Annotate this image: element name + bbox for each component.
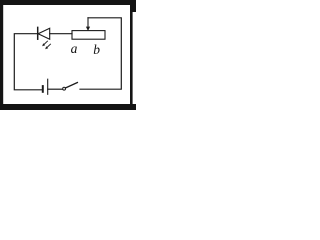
rheostat wiper arrow stem bbox=[87, 18, 89, 27]
wire: top to right side down to switch bbox=[80, 18, 121, 89]
svg-text:a: a bbox=[71, 41, 78, 56]
rheostat R: resistance box bbox=[72, 31, 105, 40]
switch S: lever blade bbox=[65, 83, 77, 89]
wire: left side + bottom-left bbox=[14, 34, 42, 90]
switch S: pivot contact circle bbox=[63, 87, 66, 90]
rheostat wiper arrowhead bbox=[86, 27, 90, 31]
diode D: cathode bar bbox=[37, 27, 39, 39]
wire: battery to switch bbox=[48, 88, 63, 90]
svg-text:b: b bbox=[93, 42, 100, 57]
LED arrow 1 bbox=[42, 41, 48, 46]
frame (decorative) bbox=[0, 0, 136, 110]
battery: negative short thick plate bbox=[42, 86, 44, 92]
diode D: triangle bbox=[38, 28, 50, 39]
LED arrow 2 bbox=[45, 44, 51, 49]
wire: diode to rheostat bbox=[50, 33, 72, 35]
battery: positive long thin plate bbox=[47, 79, 49, 94]
